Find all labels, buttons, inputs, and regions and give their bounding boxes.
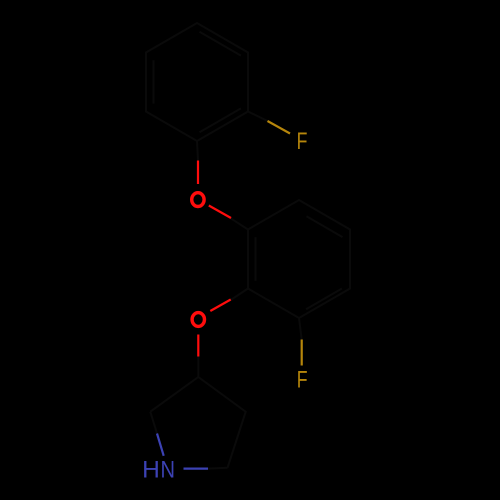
svg-text:H: H: [142, 456, 160, 483]
svg-text:F: F: [297, 367, 308, 394]
svg-text:N: N: [161, 456, 176, 483]
svg-text:F: F: [297, 128, 308, 155]
